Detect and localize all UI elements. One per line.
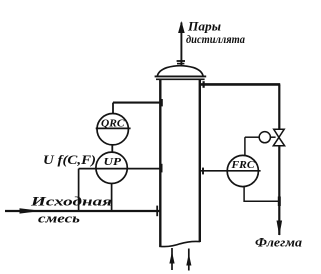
wire UP bottom drop	[111, 184, 113, 212]
valve actuator circle	[259, 132, 270, 143]
QRC mid chord	[96, 127, 131, 129]
vapour outlet stub	[177, 23, 185, 67]
svg-text:UP: UP	[104, 156, 122, 168]
feed nozzle tick	[156, 206, 158, 217]
column vessel body	[159, 80, 200, 247]
instrument FRC	[227, 155, 258, 186]
instrument QRC	[97, 114, 128, 145]
svg-text:Исходная: Исходная	[30, 194, 113, 209]
wire UP mid line (left loop to column)	[79, 168, 160, 170]
wire QRC to UP	[111, 145, 113, 152]
wire FRC bottom to pipe	[244, 187, 279, 202]
bottom vapour arrow right	[188, 249, 190, 271]
wire QRC drop	[112, 103, 114, 114]
vapour arrow up	[178, 21, 185, 33]
wire column to QRC	[113, 102, 160, 104]
wire top right (column to reflux pipe)	[201, 83, 280, 86]
nozzle tick UP line	[161, 164, 163, 173]
svg-text:дистиллята: дистиллята	[186, 32, 245, 46]
column dome	[157, 66, 203, 76]
wire FRC top vertical	[244, 137, 246, 155]
nozzle tick top right	[203, 81, 205, 88]
valve V1	[273, 129, 284, 146]
svg-text:U f(C,F): U f(C,F)	[43, 153, 96, 167]
bottom vapour arrow left	[171, 248, 173, 270]
junction tick pipe	[278, 197, 281, 207]
svg-text:Флегма: Флегма	[255, 236, 302, 250]
feed arrow	[20, 208, 42, 213]
wire left loop drop	[78, 169, 80, 211]
wire actuator to valve	[271, 136, 276, 138]
svg-text:смесь: смесь	[38, 211, 80, 226]
reflux arrow down	[277, 221, 283, 236]
wire FRC to actuator	[245, 136, 259, 138]
feed line	[5, 210, 160, 212]
column top flange	[155, 76, 207, 79]
nozzle tick FRC line	[202, 168, 204, 175]
reflux pipe lower segment	[278, 146, 280, 235]
reflux pipe upper segment	[278, 84, 280, 129]
svg-text:FRC: FRC	[230, 159, 255, 171]
instrument UP	[96, 152, 127, 183]
wire column to FRC (through-line)	[201, 170, 261, 172]
nozzle tick QRC line	[161, 99, 163, 106]
